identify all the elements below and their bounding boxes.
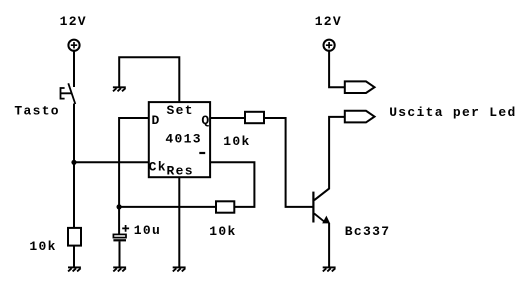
svg-text:10k: 10k [29,239,56,254]
svg-text:Q: Q [201,113,210,128]
svg-text:10u: 10u [134,223,161,238]
svg-text:10k: 10k [223,134,250,149]
svg-text:12V: 12V [60,14,87,29]
svg-text:12V: 12V [315,14,342,29]
svg-text:4013: 4013 [165,131,201,146]
svg-text:Res: Res [167,164,194,179]
svg-text:Tasto: Tasto [14,104,60,119]
svg-text:Uscita per Led: Uscita per Led [389,105,516,120]
svg-text:Bc337: Bc337 [345,224,391,239]
svg-text:10k: 10k [209,224,236,239]
svg-text:D: D [152,113,161,128]
svg-text:Set: Set [167,103,194,118]
svg-text:Ck: Ck [149,159,167,174]
